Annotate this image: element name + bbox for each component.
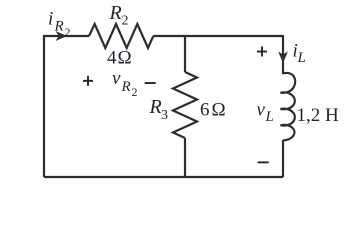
wire right lower [282, 140, 284, 177]
arrow i_R2 [56, 31, 68, 41]
plus v_L [257, 51, 267, 53]
svg-text:R: R [54, 19, 64, 35]
svg-text:Ω: Ω [212, 100, 226, 121]
arrow i_L [278, 52, 288, 64]
svg-text:2: 2 [65, 25, 71, 39]
svg-text:2: 2 [132, 85, 138, 99]
inductor L coil [281, 73, 296, 140]
svg-text:i: i [48, 9, 53, 30]
wire middle branch upper [184, 36, 186, 72]
wire left vertical [43, 36, 45, 177]
wire middle branch lower [184, 138, 186, 177]
svg-text:2: 2 [122, 14, 129, 29]
svg-text:3: 3 [161, 108, 168, 123]
svg-text:4: 4 [107, 48, 117, 69]
svg-text:L: L [265, 109, 274, 125]
svg-text:R: R [121, 79, 131, 95]
resistor R3 [173, 72, 197, 138]
svg-text:R: R [109, 2, 122, 24]
wire top-right segment [153, 35, 283, 37]
wire top-left segment [43, 35, 89, 37]
svg-text:R: R [149, 96, 162, 118]
wire bottom [44, 176, 283, 178]
svg-text:Ω: Ω [118, 48, 132, 69]
svg-text:v: v [112, 68, 121, 89]
minus v_L [258, 161, 269, 163]
svg-text:L: L [297, 50, 306, 66]
svg-text:v: v [257, 100, 266, 121]
wire right upper [282, 35, 284, 74]
svg-text:1,2 H: 1,2 H [297, 105, 340, 126]
minus v_R2 [145, 82, 156, 84]
resistor R2 [89, 24, 153, 48]
svg-text:6: 6 [200, 100, 210, 121]
plus v_R2 [83, 80, 93, 82]
